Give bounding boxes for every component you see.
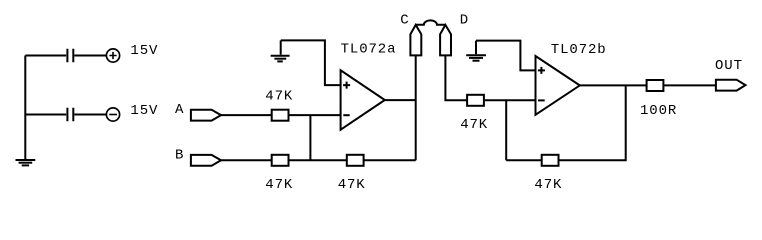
svg-text:47K: 47K [534, 177, 562, 193]
terminal -15V circle [106, 108, 119, 121]
terminal +15V circle [106, 49, 119, 62]
wire: jumper hump C to D [416, 20, 446, 24]
resistor R6 100R (output) [647, 80, 664, 91]
wire: junction vertical A-line to B-line [309, 115, 311, 160]
svg-text:15V: 15V [130, 43, 158, 59]
wire: B to R2 [221, 159, 271, 161]
capacitor C2 (bottom, -15V) [67, 108, 73, 121]
wire: left power rail vertical [24, 56, 26, 160]
wire: R4 to op-amp b inverting input [485, 99, 536, 101]
resistor R3 47K (feedback op-amp a) [347, 155, 364, 166]
wire: D tag down to R4 [445, 55, 466, 100]
svg-text:A: A [175, 102, 184, 118]
svg-text:C: C [400, 12, 409, 28]
wire: cap to +15V terminal [74, 55, 106, 57]
connector D tag [440, 25, 451, 56]
wire: R5 to output vertical [560, 85, 626, 160]
op-amp U1A TL072a [341, 70, 385, 129]
connector C tag [410, 25, 421, 56]
svg-text:B: B [175, 147, 184, 163]
connector A tag [191, 110, 221, 121]
svg-text:TL072a: TL072a [341, 42, 397, 58]
capacitor C1 (top, +15V) [67, 49, 73, 62]
connector B tag [191, 155, 221, 166]
wire: R6 to OUT tag [663, 84, 715, 86]
svg-text:D: D [460, 12, 469, 28]
wire: A to R1 [221, 114, 271, 116]
wire: feedback line to R5 [506, 159, 541, 161]
wire: R1 to op-amp a inverting input [289, 114, 341, 116]
ground (power supply) [16, 160, 36, 165]
wire: cap to -15V terminal [74, 114, 106, 116]
ground (op-amp a non-inverting) [271, 40, 290, 61]
wire: +15V branch [25, 55, 66, 57]
svg-text:47K: 47K [338, 177, 366, 193]
svg-text:47K: 47K [265, 177, 293, 193]
svg-text:TL072b: TL072b [551, 42, 607, 58]
wire: output node vertical (C tag to feedback line) [415, 55, 417, 160]
wire: op-amp a output [385, 99, 416, 101]
wire: op-amp b output to R6 [580, 84, 646, 86]
svg-text:100R: 100R [640, 103, 677, 119]
wire: R2 to R3 [289, 159, 347, 161]
svg-text:OUT: OUT [715, 58, 743, 74]
wire: feedback tap vertical op-amp b [505, 100, 507, 160]
op-amp U1B TL072b [536, 56, 580, 115]
wire: ground to op-amp b + input [476, 41, 536, 71]
wire: -15V branch [25, 114, 66, 116]
resistor R4 47K (input op-amp b) [467, 95, 484, 106]
svg-text:15V: 15V [130, 103, 158, 119]
svg-text:47K: 47K [265, 88, 293, 104]
resistor R5 47K (feedback op-amp b) [542, 155, 559, 166]
wire: R3 to output node vertical [364, 159, 416, 161]
resistor R2 47K (input B) [272, 155, 289, 166]
wire: ground to op-amp a + input [281, 40, 341, 85]
svg-text:47K: 47K [460, 117, 488, 133]
ground (op-amp b non-inverting) [466, 41, 486, 61]
connector OUT tag [716, 80, 746, 91]
resistor R1 47K (input A) [272, 110, 289, 121]
